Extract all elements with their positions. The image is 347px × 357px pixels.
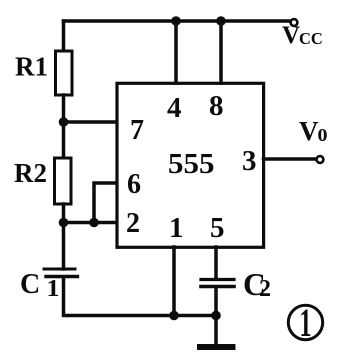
svg-text:555: 555 bbox=[168, 148, 215, 180]
svg-text:1: 1 bbox=[47, 276, 60, 302]
svg-text:6: 6 bbox=[127, 169, 141, 200]
svg-text:CC: CC bbox=[299, 29, 323, 48]
svg-text:8: 8 bbox=[209, 90, 224, 122]
svg-text:R1: R1 bbox=[15, 52, 48, 82]
svg-text:2: 2 bbox=[259, 276, 271, 302]
svg-text:2: 2 bbox=[126, 208, 140, 239]
svg-text:0: 0 bbox=[318, 125, 328, 145]
svg-text:3: 3 bbox=[242, 145, 257, 177]
svg-text:R2: R2 bbox=[14, 158, 47, 188]
svg-text:C: C bbox=[20, 269, 40, 300]
svg-text:7: 7 bbox=[130, 115, 144, 146]
svg-text:1: 1 bbox=[300, 300, 312, 345]
svg-text:V: V bbox=[282, 22, 300, 49]
svg-text:5: 5 bbox=[210, 212, 225, 244]
svg-text:4: 4 bbox=[167, 92, 182, 124]
svg-text:1: 1 bbox=[169, 212, 184, 244]
svg-text:V: V bbox=[299, 116, 319, 146]
